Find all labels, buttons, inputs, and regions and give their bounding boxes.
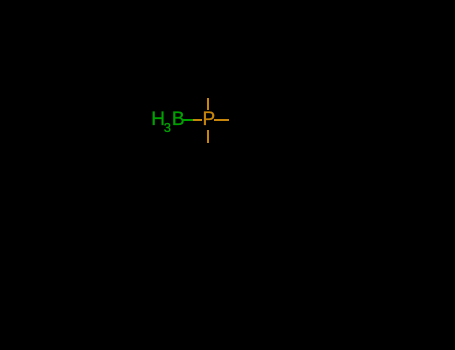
wire bond P-CH3 down — [207, 130, 209, 143]
node H3B: B atom label — [172, 119, 185, 121]
wire bond P-CH3 right — [214, 119, 229, 121]
wire bond B-P green half — [183, 119, 193, 121]
atom P label — [203, 119, 216, 121]
wire bond B-P orange half — [193, 119, 202, 121]
node H3B: H atom label — [151, 119, 165, 121]
node H3B: subscript 3 — [164, 127, 171, 129]
wire bond P-CH3 up — [207, 98, 209, 110]
